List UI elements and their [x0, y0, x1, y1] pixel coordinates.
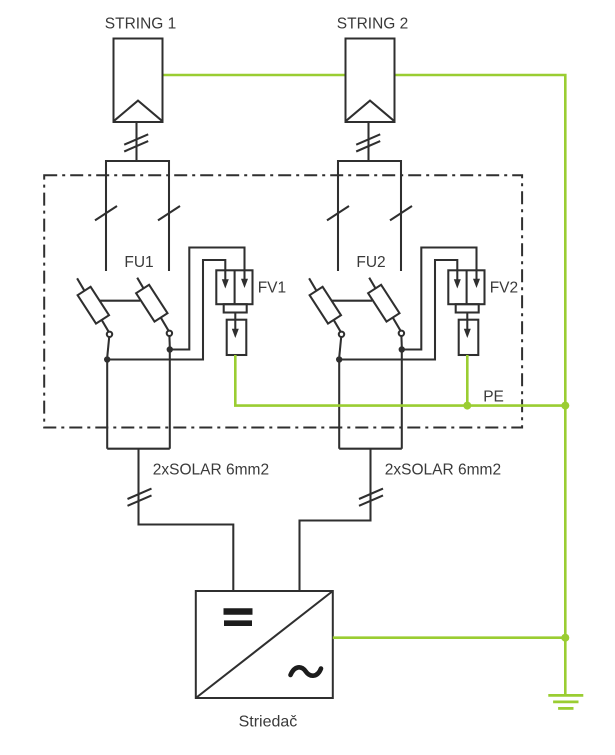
svg-text:2xSOLAR 6mm2: 2xSOLAR 6mm2 [385, 461, 501, 478]
junction PE / FV2 [463, 402, 471, 410]
svg-text:Striedač: Striedač [239, 714, 298, 731]
surge arrester FV2 [448, 270, 484, 355]
connector mark string 2 pole 1 [327, 206, 349, 220]
svg-text:STRING 1: STRING 1 [105, 16, 176, 33]
fuse-disconnector FU2 pole 1 body [310, 287, 341, 324]
wire FU2 pole 1 down [338, 360, 340, 449]
node FU1 pole 2 junction [167, 346, 173, 352]
cable mark string 2 bottom [359, 489, 383, 506]
svg-text:FU2: FU2 [356, 254, 385, 271]
wire FU2 pole 2 down [401, 350, 403, 449]
input cable gland string 1 [106, 161, 169, 271]
fuse-disconnector FU1 pole 1 hinge [107, 332, 112, 337]
wire FU1 pole 1 to FV1 [107, 260, 225, 360]
surge arrester FV1 [216, 270, 252, 355]
node FU2 pole 1 junction [336, 356, 342, 362]
fuse-disconnector FU2 pole 2 body [368, 285, 399, 322]
fuse-disconnector FU2 pole 1 blade [309, 278, 341, 332]
fuse-disconnector FU2 pole 2 blade [369, 278, 400, 331]
wire FU1 pole 2 hinge to node [168, 336, 170, 347]
wire string 1 cable to inverter [139, 449, 234, 591]
wire string 2 cable to inverter [300, 449, 371, 591]
wire FU1 pole 2 down [169, 350, 171, 449]
wire FU2 pole 1 hinge to node [339, 337, 341, 357]
connector mark string 1 pole 1 [95, 206, 117, 220]
connector mark string 2 pole 2 [390, 206, 412, 220]
PV module string 2 symbol [346, 39, 395, 123]
wire string 1 to enclosure [135, 122, 137, 161]
fuse-disconnector FU1 pole 2 blade [137, 278, 168, 331]
PV module string 1 symbol [114, 39, 163, 123]
FV2 earth wire [466, 355, 469, 406]
connector mark string 1 pole 2 [158, 206, 180, 220]
output cable gland string 2 [339, 448, 402, 450]
fuse-disconnector FU2 pole 1 hinge [339, 332, 344, 337]
svg-text:STRING 2: STRING 2 [337, 16, 408, 33]
node FU1 pole 1 junction [104, 356, 110, 362]
enclosure boundary [44, 175, 522, 427]
inverter PE wire [333, 636, 566, 639]
fuse-disconnector FU1 pole 2 body [136, 285, 167, 322]
wire FU1 pole 1 hinge to node [107, 337, 109, 357]
ground [548, 695, 583, 708]
cable mark string 2 top [356, 134, 380, 151]
PE bus wire [235, 355, 565, 406]
svg-text:2xSOLAR 6mm2: 2xSOLAR 6mm2 [153, 461, 269, 478]
coupling bar FU2 [331, 300, 372, 302]
junction inverter PE / riser [561, 634, 569, 642]
svg-text:PE: PE [483, 389, 504, 406]
wire FU2 pole 2 to FV2 [402, 248, 477, 350]
wire FU1 pole 1 down [106, 360, 108, 449]
input cable gland string 2 [338, 161, 401, 271]
node FU2 pole 2 junction [399, 346, 405, 352]
wire string 2 to enclosure [367, 122, 369, 161]
fuse-disconnector FU1 pole 1 blade [77, 278, 109, 332]
wire FU2 pole 2 hinge to node [400, 336, 402, 347]
cable mark string 1 top [124, 134, 148, 151]
svg-text:FV1: FV1 [258, 279, 286, 296]
inverter Striedac [196, 591, 333, 698]
svg-text:FU1: FU1 [124, 254, 153, 271]
junction PE / riser [561, 402, 569, 410]
fuse-disconnector FU1 pole 2 hinge [167, 331, 172, 336]
svg-text:FV2: FV2 [490, 279, 518, 296]
fuse-disconnector FU1 pole 1 body [78, 287, 109, 324]
green PE bonding wire from STRING 1 frame [163, 74, 346, 77]
wire FU2 pole 1 to FV2 [339, 260, 457, 360]
output cable gland string 1 [107, 448, 170, 450]
green PE bonding wire from STRING 2 to earth riser [395, 75, 566, 695]
fuse-disconnector FU2 pole 2 hinge [399, 331, 404, 336]
wire FU1 pole 2 to FV1 [170, 248, 245, 350]
cable mark string 1 bottom [128, 489, 152, 506]
coupling bar FU1 [99, 300, 140, 302]
